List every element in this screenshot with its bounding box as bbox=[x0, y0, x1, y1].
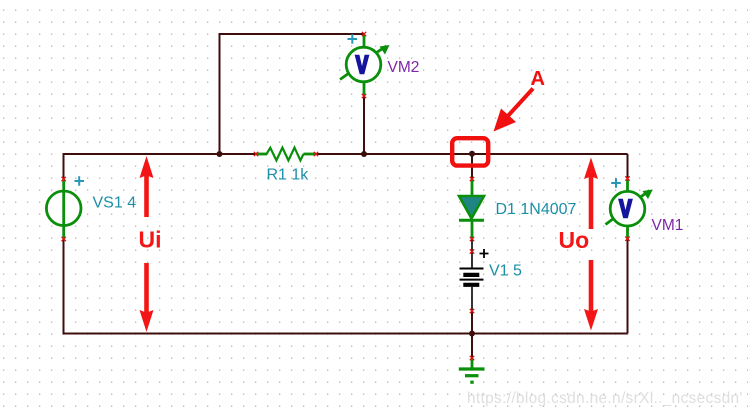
terminal x mark VM2 top bbox=[362, 32, 366, 36]
label V1 5 bbox=[489, 263, 522, 280]
svg-text:VS1 4: VS1 4 bbox=[93, 195, 137, 212]
terminal x mark D1 bottom bbox=[470, 237, 474, 241]
label Ui bbox=[139, 227, 162, 253]
junction node at R1 left branch bbox=[217, 151, 223, 157]
wire VM2 to node bbox=[363, 96, 365, 154]
annotation arrow A bbox=[494, 89, 534, 132]
svg-text:Uo: Uo bbox=[559, 227, 590, 253]
svg-text:R1 1k: R1 1k bbox=[267, 167, 310, 184]
label VM1 bbox=[652, 217, 684, 234]
terminal x mark VS1 bottom bbox=[62, 237, 66, 241]
VM2 plus polarity mark bbox=[348, 34, 358, 44]
annotation Uo arrow down bbox=[584, 260, 598, 331]
terminal x mark VM1 bottom bbox=[625, 237, 629, 241]
wire right vertical bbox=[627, 154, 629, 334]
wire bottom to ground bbox=[471, 334, 473, 359]
diode D1 bbox=[459, 179, 484, 239]
wire bottom horizontal bbox=[63, 333, 628, 335]
wire top-left horizontal segment bbox=[64, 153, 257, 155]
wire diode to battery bbox=[471, 239, 473, 252]
junction node below VM2 bbox=[361, 151, 367, 157]
wire upper branch bbox=[220, 34, 365, 154]
svg-text:https://blog.csdn.ne.n/srXl.._: https://blog.csdn.ne.n/srXl.._ncsecsdn' bbox=[467, 390, 743, 407]
watermark bbox=[467, 390, 743, 407]
label A bbox=[531, 68, 545, 90]
terminal x mark VS1 top bbox=[62, 177, 66, 181]
voltage source VS1 bbox=[46, 179, 81, 239]
battery plus polarity mark bbox=[480, 249, 489, 258]
voltmeter VM1 bbox=[606, 179, 653, 239]
wire battery to bottom bbox=[471, 311, 473, 334]
wire left vertical bbox=[63, 153, 65, 334]
svg-text:VM2: VM2 bbox=[388, 59, 420, 76]
svg-text:Ui: Ui bbox=[139, 227, 162, 253]
wire node to diode bbox=[471, 154, 473, 179]
wire top-right horizontal segment bbox=[316, 153, 628, 155]
annotation Ui arrow up bbox=[140, 156, 154, 217]
annotation Ui arrow down bbox=[140, 263, 154, 332]
label D1 1N4007 bbox=[496, 201, 577, 218]
label Uo bbox=[559, 227, 590, 253]
label VM2 bbox=[388, 59, 420, 76]
terminal x mark VM2 bottom bbox=[362, 94, 366, 98]
svg-text:VM1: VM1 bbox=[652, 217, 684, 234]
svg-text:V1 5: V1 5 bbox=[489, 263, 522, 280]
junction node at ground bbox=[469, 331, 475, 337]
voltmeter VM2 bbox=[340, 35, 390, 97]
node A marker (red square) bbox=[452, 138, 488, 165]
terminal x mark ground bbox=[470, 356, 474, 360]
annotation Uo arrow up bbox=[584, 158, 598, 230]
junction node A (diode top) bbox=[469, 151, 475, 157]
ground bbox=[459, 358, 485, 382]
label VS1 4 bbox=[93, 195, 137, 212]
terminal x mark R1 right bbox=[314, 152, 318, 156]
terminal x mark V1 bottom bbox=[470, 309, 474, 313]
VM1 plus polarity mark bbox=[611, 178, 621, 188]
terminal x mark V1 top bbox=[470, 249, 474, 253]
VS1 plus polarity mark bbox=[75, 176, 85, 186]
label R1 1k bbox=[267, 167, 310, 184]
resistor R1 bbox=[256, 148, 316, 161]
svg-text:D1 1N4007: D1 1N4007 bbox=[496, 201, 577, 218]
terminal x mark D1 top bbox=[470, 177, 474, 181]
svg-text:A: A bbox=[531, 68, 545, 90]
battery V1 bbox=[460, 252, 484, 311]
terminal x mark VM1 top bbox=[625, 176, 629, 180]
terminal x mark R1 left bbox=[254, 152, 258, 156]
